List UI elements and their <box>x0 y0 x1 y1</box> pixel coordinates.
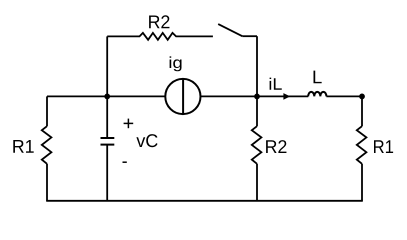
capacitor C top plate <box>101 137 115 139</box>
wire: bottom rail <box>46 200 363 202</box>
current arrow iL <box>283 93 290 100</box>
wire: node B down to resistor R2 (mid) <box>256 96 258 126</box>
wire: inductor to node C <box>326 95 362 97</box>
node A junction dot <box>104 94 110 100</box>
node B junction dot <box>254 94 260 100</box>
wire: resistor R2 (mid) to bottom rail <box>256 164 258 201</box>
label R2 (middle) <box>266 140 286 153</box>
wire: current source to node B <box>201 95 258 97</box>
resistor R1 (left) zigzag <box>42 126 52 164</box>
wire: left horizontal (left branch top) <box>47 95 107 97</box>
label R1 (left) <box>13 140 33 153</box>
label + (capacitor polarity) <box>124 119 134 129</box>
label R2 (top) <box>149 15 169 28</box>
switch blade (open) <box>218 24 242 36</box>
resistor R1 (right) zigzag <box>357 126 367 164</box>
resistor R2 (top branch) with leads <box>107 33 213 40</box>
wire: capacitor bottom plate to bottom rail <box>106 145 108 201</box>
switch right contact stub <box>242 35 257 37</box>
label - (capacitor polarity) <box>123 161 127 163</box>
wire: resistor R1 (right) to bottom rail <box>361 164 363 201</box>
wire: left vertical lower lead <box>46 164 48 201</box>
label iL <box>270 78 282 90</box>
capacitor C bottom plate <box>101 144 115 146</box>
node C junction dot <box>359 94 365 100</box>
wire: vertical riser x=107 (top rail to node A) <box>106 36 108 96</box>
wire: node B to inductor <box>257 95 308 97</box>
label ig <box>170 56 182 71</box>
wire: node A to current source <box>107 95 165 97</box>
wire: node C down to resistor R1 (right) <box>361 96 363 126</box>
inductor L (3 humps) <box>308 92 326 97</box>
label L <box>314 71 322 84</box>
resistor R2 (middle) zigzag <box>252 126 262 164</box>
wire: node A to capacitor top plate <box>106 96 108 138</box>
wire: left vertical upper lead <box>46 96 48 126</box>
current source ig (circle with vertical bar) <box>165 79 200 114</box>
wire: switch down to node B <box>256 36 258 96</box>
label vC <box>136 134 157 147</box>
label R1 (right) <box>374 140 393 153</box>
